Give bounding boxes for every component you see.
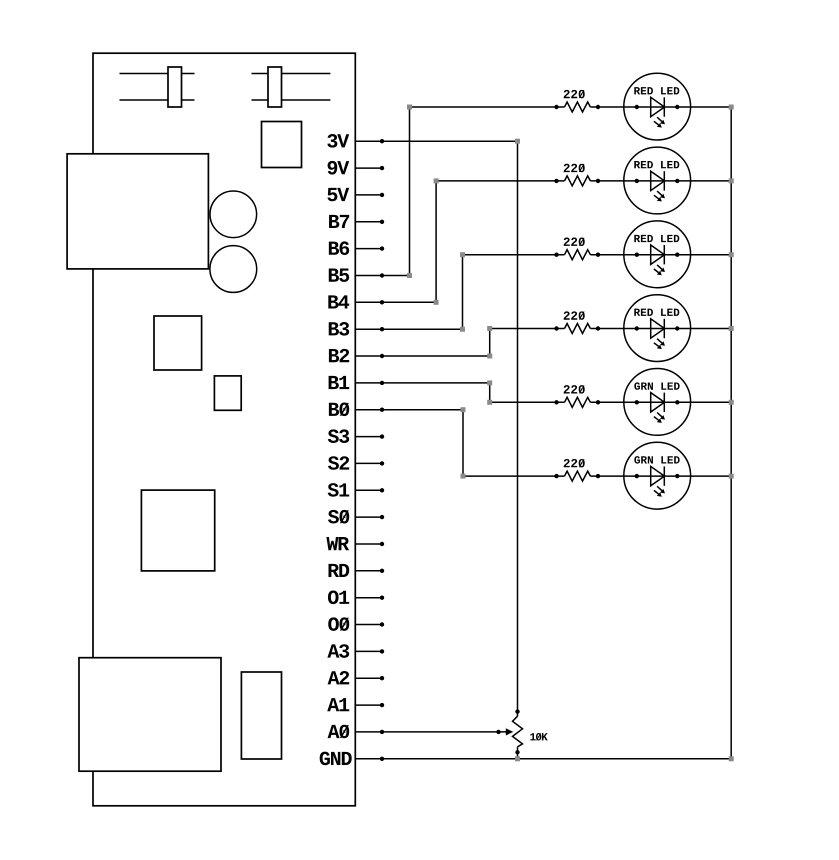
IC U2 small square below Y2 [262, 122, 302, 168]
pin O0 wire stub [355, 624, 384, 626]
resistor R5 value label 220 [564, 385, 585, 393]
LED D6 anode triangle [651, 466, 665, 485]
LED D2 cathode bar [663, 171, 665, 190]
LED D4 label RED LED [634, 309, 679, 316]
LED D1 light arrow 1 shaft [657, 117, 662, 121]
wire LED row 6 left segment [463, 475, 565, 477]
pin B1 wire [355, 382, 489, 384]
wire vertical B2 to LED row 4 [489, 329, 491, 357]
junction dot pin A1 [380, 703, 384, 707]
net corner B2/LED4 [487, 326, 492, 331]
LED D2 circle [624, 147, 691, 214]
wire pot bottom to GND rail [517, 747, 519, 759]
LED D1 label RED LED [634, 87, 679, 94]
junction dot R4 right [596, 326, 600, 330]
pin label GND [320, 752, 352, 766]
wire LED row 5 left segment [490, 401, 565, 403]
net corner at pin B5 [407, 273, 412, 278]
LED D2 arrowhead 1 [660, 194, 665, 199]
capacitor C2 round can [210, 246, 257, 293]
pot value label 10K [530, 733, 547, 740]
junction dot R6 right [596, 474, 600, 478]
junction dot R2 right [596, 179, 600, 183]
pin S2 wire stub [355, 462, 384, 464]
junction dot pin A2 [380, 676, 384, 680]
pin label B0 [329, 403, 349, 417]
pin A3 wire stub [355, 650, 384, 652]
LED D1 circle [624, 73, 691, 140]
junction dot pin O0 [380, 622, 384, 626]
pin label B3 [329, 322, 349, 336]
pin label B1 [329, 376, 350, 389]
junction dot pin B2 [380, 354, 384, 358]
junction dot pin A0 [380, 730, 384, 734]
LED D1 arrowhead 2 [657, 123, 662, 128]
junction dot R3 left [554, 253, 558, 257]
pin S3 wire stub [355, 436, 384, 438]
LED D4 arrowhead 2 [657, 345, 662, 350]
header J3 tall narrow rect [241, 672, 281, 759]
IC U5 large square [141, 490, 214, 571]
USB connector J2 [79, 658, 221, 772]
pin label B7 [329, 215, 349, 228]
LED D5 cathode bar [663, 393, 665, 412]
pin label S0 [328, 510, 349, 524]
bus node LED row 1 [729, 105, 734, 110]
wire vertical B4 to LED row 2 [435, 181, 437, 302]
crystal Y1 body [168, 67, 182, 107]
LED D6 light arrow 1 shaft [657, 486, 662, 490]
pin B6 wire stub [355, 248, 384, 250]
resistor R5 220 zigzag [565, 397, 591, 407]
pin S0 wire stub [355, 516, 384, 518]
junction dot pot top [515, 709, 519, 713]
LED D3 light arrow 2 shaft [654, 269, 659, 273]
junction dot D4 cathode [675, 326, 679, 330]
LED D5 circle [624, 369, 691, 436]
junction dot D6 anode [635, 474, 639, 478]
pin label A3 [327, 644, 349, 658]
pin label 5V [327, 188, 349, 201]
resistor R6 value label 220 [564, 459, 585, 467]
LED D5 light arrow 1 shaft [657, 413, 662, 417]
pin B5 wire [355, 275, 409, 277]
junction dot D1 anode [635, 105, 639, 109]
pin A1 wire stub [355, 704, 384, 706]
pin 3V wire [355, 140, 517, 142]
IC U4 small square [214, 376, 241, 410]
pin label B6 [329, 241, 349, 255]
bus node LED row 5 [729, 400, 734, 405]
LED D5 anode triangle [651, 393, 665, 412]
LED D3 light arrow 1 shaft [657, 265, 662, 269]
pin A0 wire to potentiometer wiper [355, 731, 506, 733]
LED D4 arrowhead 1 [660, 341, 665, 346]
IC U3 medium square [154, 316, 202, 370]
net corner B1/LED5 [487, 400, 492, 405]
pot wiper arrowhead [506, 728, 513, 735]
LED D3 label RED LED [634, 235, 679, 242]
bus node LED row 4 [729, 326, 734, 331]
LED D4 anode triangle [651, 319, 665, 338]
wire LED row 1 left segment [410, 106, 565, 108]
LED D2 light arrow 1 shaft [657, 191, 662, 195]
pin B3 wire [355, 328, 462, 330]
pin label A0 [328, 725, 350, 739]
junction dot R5 left [554, 400, 558, 404]
resistor R2 220 zigzag [565, 176, 591, 186]
LED D4 cathode bar [663, 319, 665, 338]
net node pot/GND [515, 756, 520, 761]
junction dot R5 right [596, 400, 600, 404]
junction dot pin O1 [380, 596, 384, 600]
junction dot pin S0 [380, 515, 384, 519]
LED D1 light arrow 2 shaft [654, 121, 659, 125]
junction dot pin B1 [380, 381, 384, 385]
wire vertical right return bus [730, 107, 732, 759]
pin label RD [329, 564, 350, 577]
junction dot pin S1 [380, 488, 384, 492]
crystal Y2 body [268, 67, 282, 107]
pin label 3V [327, 134, 349, 148]
pin label 9V [328, 161, 350, 175]
capacitor C1 round can [210, 191, 257, 238]
resistor R3 value label 220 [564, 238, 585, 246]
resistor R1 220 zigzag [565, 102, 591, 112]
pin label B2 [329, 349, 349, 362]
net corner at pin B3 [460, 327, 465, 332]
potentiometer R7 10K vertical zigzag body [513, 716, 523, 747]
resistor R2 value label 220 [564, 164, 585, 172]
junction dot pin B3 [380, 327, 384, 331]
pin label A2 [328, 671, 350, 684]
LED D5 arrowhead 1 [660, 415, 665, 420]
wire vertical B5 to LED row 1 [409, 107, 411, 276]
pin 5V wire stub [355, 194, 384, 196]
bus node LED row 6 [729, 474, 734, 479]
LED D5 light arrow 2 shaft [654, 417, 659, 421]
junction dot R4 left [554, 326, 558, 330]
junction dot pin B7 [380, 220, 384, 224]
junction dot pin B0 [380, 408, 384, 412]
wire LED row 4 right segment [590, 328, 731, 330]
junction dot pin RD [380, 569, 384, 573]
LED D2 light arrow 2 shaft [654, 195, 659, 199]
pin S1 wire stub [355, 489, 384, 491]
LED D5 arrowhead 2 [657, 418, 662, 423]
pin label B4 [328, 295, 349, 308]
junction dot D3 anode [635, 253, 639, 257]
pin label WR [326, 537, 349, 550]
net corner B4/LED2 [434, 178, 439, 183]
LED D6 circle [624, 442, 691, 509]
junction dot R1 right [596, 105, 600, 109]
junction dot D5 anode [635, 400, 639, 404]
net corner at pin B2 [487, 354, 492, 359]
LED D6 label GRN LED [634, 456, 679, 463]
LED D2 label RED LED [634, 161, 679, 168]
net corner B3/LED3 [460, 252, 465, 257]
pin B7 wire stub [355, 221, 384, 223]
junction dot R3 right [596, 253, 600, 257]
LED D6 cathode bar [663, 466, 665, 485]
wire vertical 3V to potentiometer [517, 141, 519, 716]
pin label A1 [327, 698, 349, 711]
pin O1 wire stub [355, 597, 384, 599]
wire LED row 5 right segment [590, 401, 731, 403]
pin WR wire stub [355, 543, 384, 545]
pin label S3 [328, 429, 349, 443]
junction dot pin 5V [380, 193, 384, 197]
LED D5 label GRN LED [634, 382, 679, 389]
net corner at pin B0 [461, 407, 466, 412]
wire LED row 2 right segment [590, 180, 731, 182]
wire LED row 2 left segment [436, 180, 564, 182]
junction dot R1 left [554, 105, 558, 109]
LED D4 circle [624, 295, 691, 362]
pin A2 wire stub [355, 677, 384, 679]
LED D2 anode triangle [651, 171, 665, 190]
junction dot pin B6 [380, 246, 384, 250]
resistor R4 220 zigzag [565, 324, 591, 334]
resistor R4 value label 220 [564, 311, 585, 319]
junction dot pin S2 [380, 461, 384, 465]
wire vertical B0 to LED row 6 [462, 410, 464, 476]
pin B0 wire [355, 409, 463, 411]
pin B2 wire [355, 355, 489, 357]
resistor R6 220 zigzag [565, 471, 591, 481]
pin label S2 [328, 456, 349, 470]
junction dot D5 cathode [675, 400, 679, 404]
pin GND ground rail wire [355, 758, 731, 760]
junction dot pin 9V [380, 166, 384, 170]
pin label B5 [329, 269, 349, 282]
wire LED row 3 right segment [590, 254, 731, 256]
wire LED row 4 left segment [490, 328, 565, 330]
junction dot pin WR [380, 542, 384, 546]
LED D3 anode triangle [651, 245, 665, 264]
LED D6 arrowhead 2 [657, 492, 662, 497]
net corner at pin 3V [515, 139, 520, 144]
bus node GND [729, 756, 734, 761]
pin B4 wire [355, 301, 436, 303]
crystal Y1 leads [120, 74, 195, 101]
junction dot D1 cathode [675, 105, 679, 109]
microcontroller board outline [93, 53, 355, 806]
LED D1 arrowhead 1 [660, 120, 665, 125]
junction dot D4 anode [635, 326, 639, 330]
junction dot pin A3 [380, 649, 384, 653]
LED D6 arrowhead 1 [660, 489, 665, 494]
junction dot pot bottom [515, 750, 519, 754]
LED D3 arrowhead 2 [657, 271, 662, 276]
wire vertical B3 to LED row 3 [462, 255, 464, 330]
power jack J1 [67, 154, 208, 269]
junction dot pin 3V [380, 139, 384, 143]
net corner B5/LED1 [407, 105, 412, 110]
LED D4 light arrow 1 shaft [657, 339, 662, 343]
wire LED row 1 right segment [590, 106, 731, 108]
junction dot pin S3 [380, 434, 384, 438]
pin label S1 [328, 483, 350, 497]
wire vertical B1 to LED row 5 [489, 383, 491, 402]
pin 9V wire stub [355, 167, 384, 169]
net corner B0/LED6 [461, 474, 466, 479]
net corner at pin B1 [487, 380, 492, 385]
LED D3 arrowhead 1 [660, 268, 665, 273]
crystal Y2 leads [252, 74, 331, 101]
resistor R3 220 zigzag [565, 250, 591, 260]
junction dot pin B4 [380, 300, 384, 304]
junction dot R6 left [554, 474, 558, 478]
junction dot D3 cathode [675, 253, 679, 257]
junction dot R2 left [554, 179, 558, 183]
pin label O0 [328, 617, 349, 631]
LED D2 arrowhead 2 [657, 197, 662, 202]
pin RD wire stub [355, 570, 384, 572]
LED D1 cathode bar [663, 97, 665, 116]
wire LED row 6 right segment [590, 475, 731, 477]
bus node LED row 2 [729, 178, 734, 183]
LED D3 cathode bar [663, 245, 665, 264]
net corner at pin B4 [434, 300, 439, 305]
junction dot pin B5 [380, 273, 384, 277]
pin label O1 [328, 591, 349, 605]
junction dot D6 cathode [675, 474, 679, 478]
junction dot D2 anode [635, 179, 639, 183]
LED D1 anode triangle [651, 97, 665, 116]
LED D6 light arrow 2 shaft [654, 490, 659, 494]
bus node LED row 3 [729, 252, 734, 257]
junction dot A0 wiper wire [496, 730, 500, 734]
LED D3 circle [624, 221, 691, 288]
resistor R1 value label 220 [564, 90, 585, 98]
wire LED row 3 left segment [463, 254, 565, 256]
junction dot D2 cathode [675, 179, 679, 183]
LED D4 light arrow 2 shaft [654, 343, 659, 347]
junction dot pin GND [380, 757, 384, 761]
